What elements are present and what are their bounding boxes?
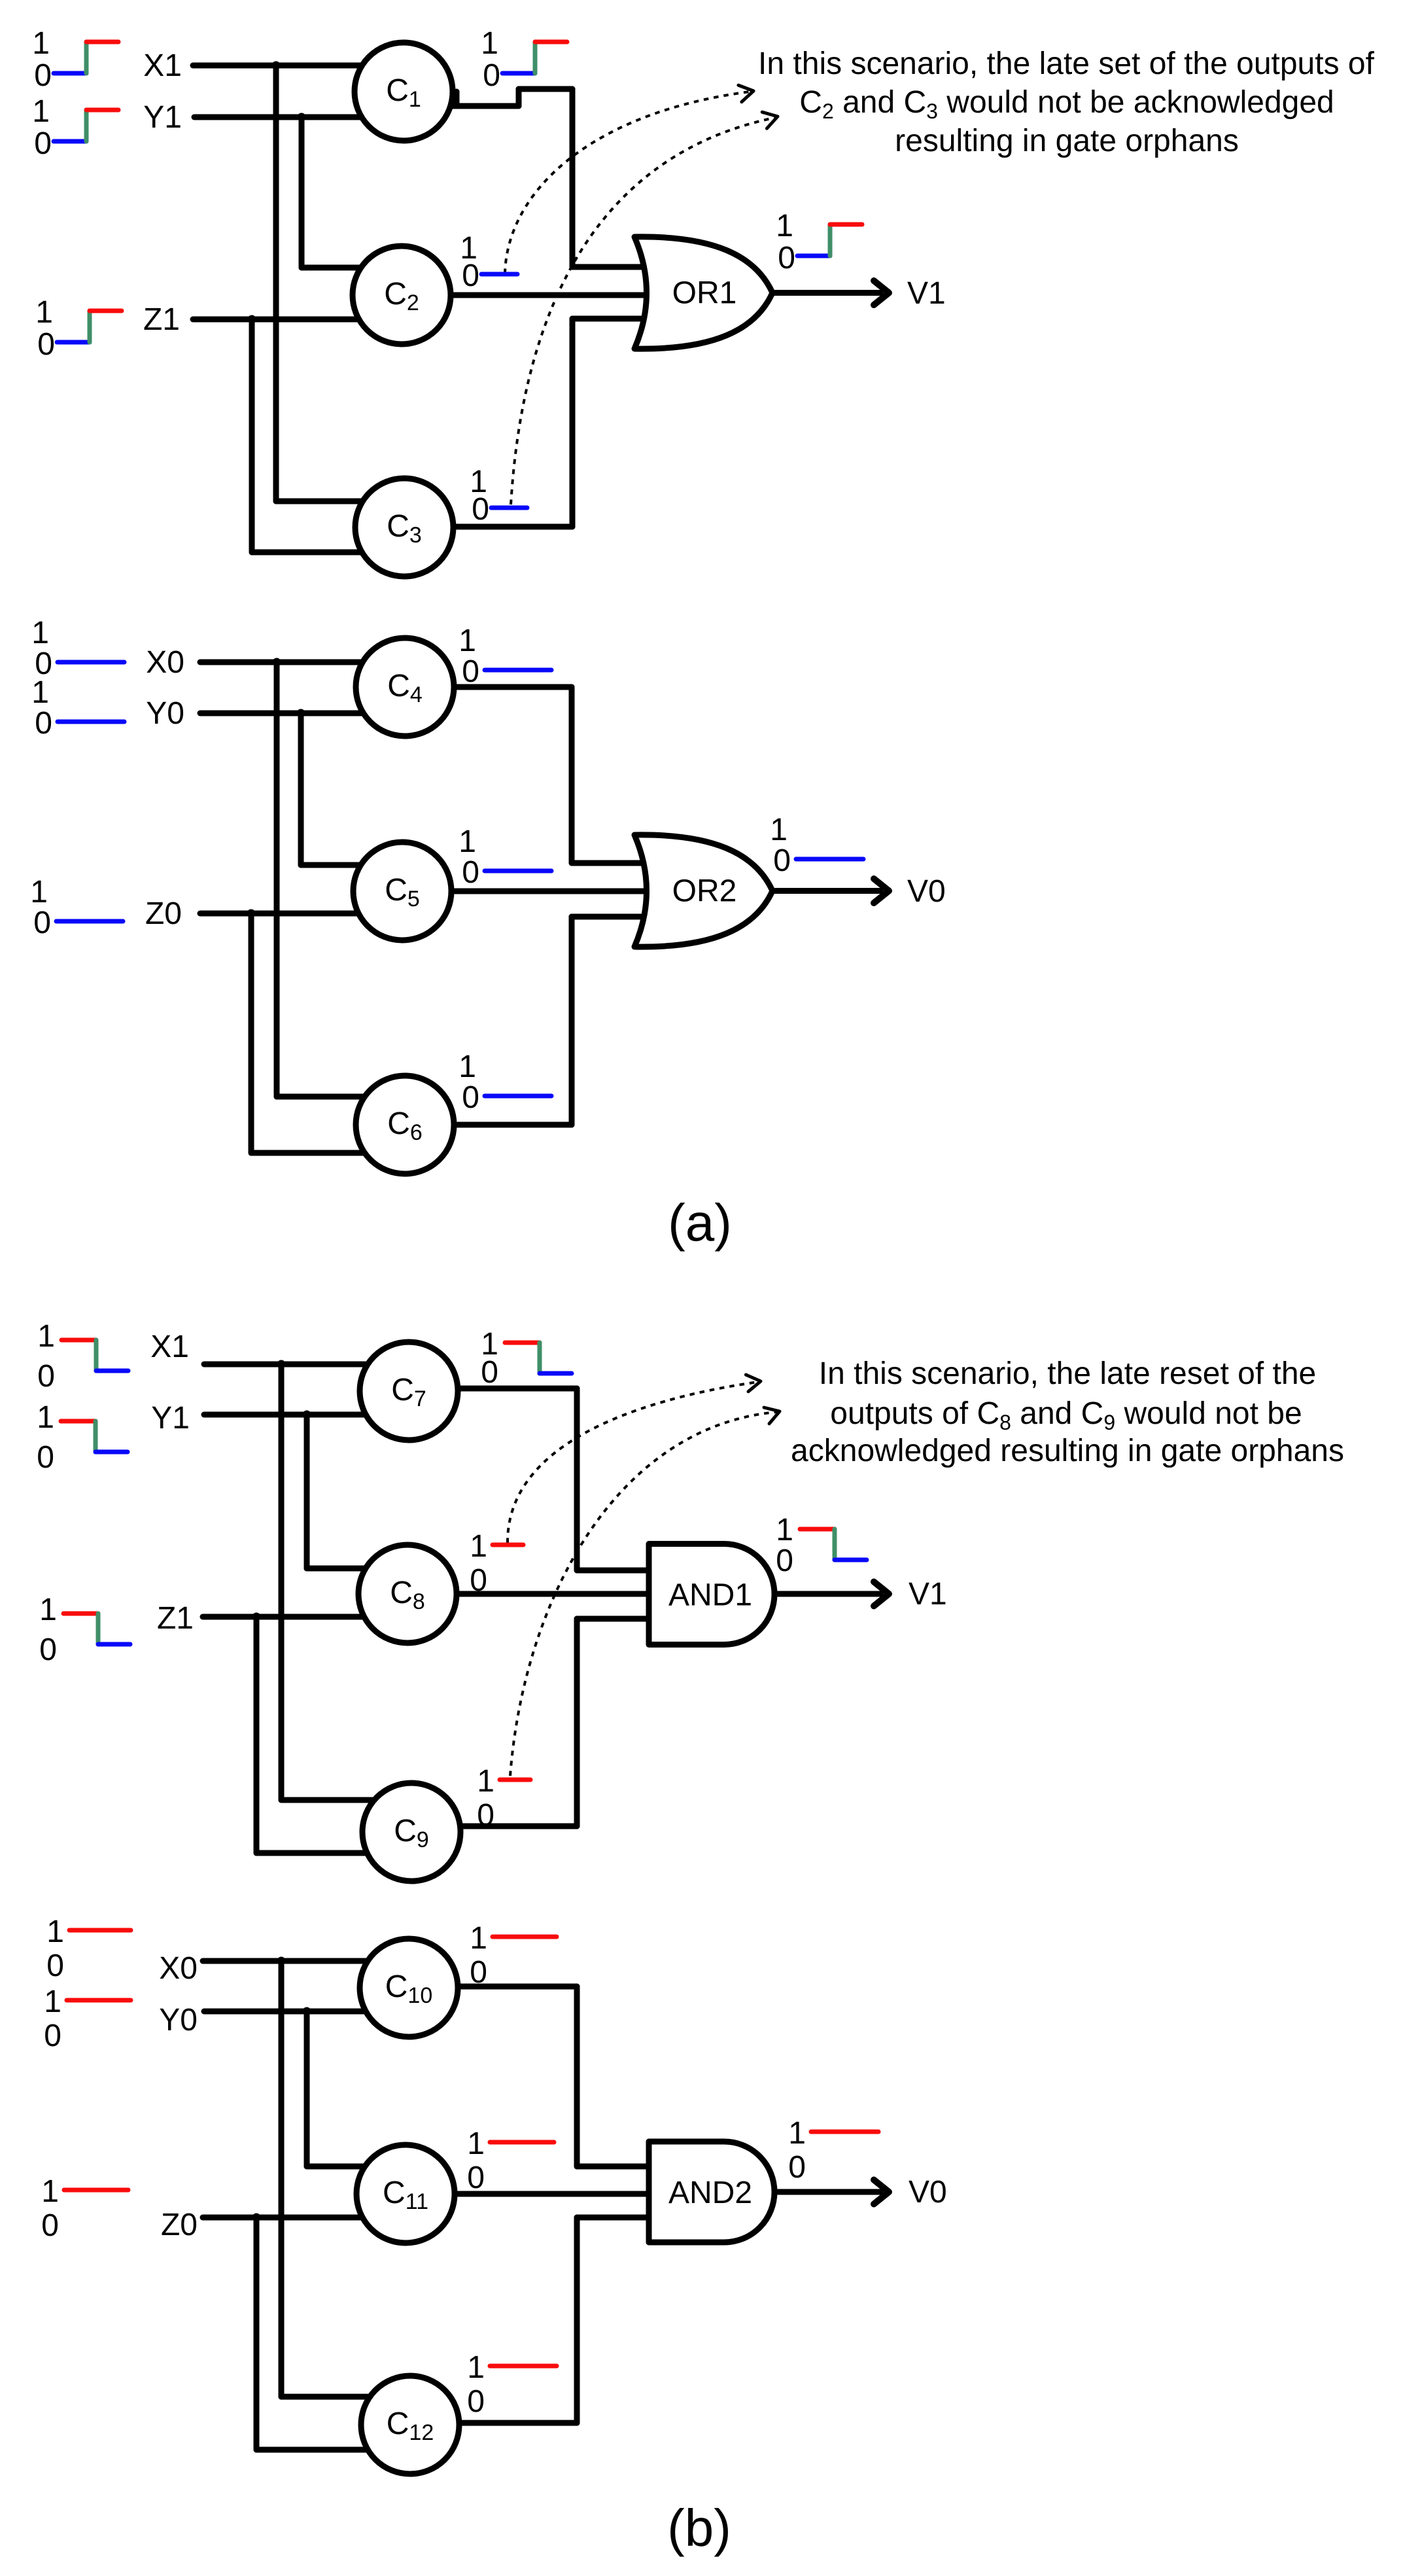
svg-text:1: 1 — [459, 624, 476, 658]
junction X1 (b) — [277, 1360, 286, 1369]
wire Z0 vertical to C6 — [251, 913, 405, 1153]
wire X0 vertical to C6 — [277, 662, 405, 1097]
svg-text:Y0: Y0 — [146, 696, 184, 731]
junction X0 (a) — [273, 658, 281, 667]
svg-text:1: 1 — [37, 1319, 55, 1354]
svg-text:V1: V1 — [907, 276, 946, 311]
svg-text:V1: V1 — [909, 1577, 947, 1612]
waveform V0 output low (a) — [770, 813, 863, 878]
wire C1 output to OR1 top input — [404, 89, 657, 267]
node V0 label (b) — [909, 2175, 947, 2210]
waveform C10 output high — [470, 1921, 557, 1990]
wire AND1 output arrow to V1 — [774, 1582, 889, 1606]
node X0 label (a) — [146, 645, 184, 680]
wire C2 output to OR1 middle input — [402, 292, 657, 298]
junction Y0 (b) — [303, 2007, 311, 2016]
wire C12 output to AND2 bottom input — [410, 2217, 657, 2423]
waveform C5 output low — [459, 824, 551, 890]
svg-text:acknowledged resulting in gate: acknowledged resulting in gate orphans — [791, 1434, 1344, 1468]
svg-text:Y0: Y0 — [159, 2003, 198, 2038]
wire Z1 to C8 — [203, 1614, 407, 1620]
wire C5 output to OR2 middle input — [402, 889, 657, 894]
svg-text:1: 1 — [477, 1764, 494, 1799]
svg-text:0: 0 — [33, 906, 51, 940]
svg-text:1: 1 — [32, 94, 50, 129]
waveform V0 output high (b) — [788, 2116, 878, 2185]
waveform X1 falling input (b) — [37, 1319, 128, 1394]
note text gate orphans (b) — [791, 1356, 1344, 1468]
waveform C3 output low — [470, 465, 527, 527]
svg-text:1: 1 — [32, 26, 50, 61]
svg-text:0: 0 — [773, 843, 791, 878]
C-element C11 — [356, 2145, 455, 2243]
svg-text:OR2: OR2 — [672, 874, 737, 909]
node X1 label (a) — [143, 48, 182, 83]
OR gate OR1 — [634, 237, 772, 349]
waveform V1 output rising (a) — [776, 209, 862, 275]
svg-text:1: 1 — [39, 1593, 57, 1627]
svg-text:outputs of C8 and C9 would not: outputs of C8 and C9 would not be — [830, 1396, 1302, 1434]
svg-text:1: 1 — [459, 824, 476, 859]
C-element C10 — [360, 1939, 458, 2037]
dashed arrow from C2 output waveform to note (a) — [505, 82, 755, 273]
svg-text:1: 1 — [37, 1400, 54, 1435]
node Y1 label (b) — [151, 1401, 190, 1436]
wire Y0 to C4 — [200, 711, 405, 716]
svg-text:0: 0 — [481, 1355, 498, 1390]
wire X0 vertical to C12 — [281, 1961, 410, 2397]
wire C10 output to AND2 top input — [409, 1986, 657, 2166]
wire X1 to C7 — [204, 1362, 409, 1367]
svg-text:1: 1 — [770, 813, 788, 847]
svg-text:1: 1 — [44, 1985, 61, 2019]
wire Y0 to C10 — [204, 2009, 409, 2015]
node V1 label (b) — [909, 1577, 947, 1612]
junction Y0 (a) — [297, 709, 305, 718]
wire Y1 vertical to C8 — [307, 1415, 407, 1568]
junction Z1 (b) — [252, 1613, 261, 1621]
node Z0 label (b) — [161, 2208, 198, 2242]
node Y1 label (a) — [143, 100, 182, 135]
svg-text:(a): (a) — [668, 1193, 732, 1252]
svg-text:1: 1 — [30, 875, 48, 909]
waveform Z1 rising input (a) — [35, 295, 122, 362]
C-element C12 — [361, 2376, 459, 2474]
C-element C2 — [353, 246, 451, 344]
C-element C5 — [353, 842, 451, 940]
wire AND2 output arrow to V0 — [774, 2180, 889, 2204]
svg-text:0: 0 — [462, 258, 479, 293]
svg-text:0: 0 — [37, 1440, 54, 1475]
waveform C4 output low — [459, 624, 551, 689]
waveform Y0 high input (b) — [44, 1985, 131, 2053]
waveform Z0 high input (b) — [41, 2174, 128, 2243]
C-element C6 — [356, 1076, 454, 1174]
wire C6 output to OR2 bottom input — [405, 917, 657, 1125]
svg-text:0: 0 — [37, 327, 55, 362]
waveform C6 output low — [459, 1050, 551, 1115]
waveform C8 output high — [470, 1529, 523, 1598]
wire Y0 vertical to C11 — [307, 2011, 406, 2166]
wire Y1 to C7 — [204, 1412, 409, 1418]
waveform X1 rising input (a) — [32, 26, 118, 93]
waveform C12 output high — [467, 2350, 557, 2419]
wire X1 vertical to C3 (a) — [276, 65, 404, 501]
svg-text:OR1: OR1 — [672, 276, 737, 311]
wire X0 to C10 — [203, 1958, 409, 1964]
wire C11 output to AND2 middle input — [406, 2191, 657, 2197]
svg-text:X1: X1 — [150, 1330, 189, 1364]
wire X1 vertical to C9 — [281, 1364, 411, 1800]
dashed arrow from C9 output waveform to note (b) — [510, 1403, 782, 1776]
waveform C11 output high — [467, 2126, 554, 2195]
wire X1 to C1 (a) — [193, 63, 404, 69]
svg-text:0: 0 — [467, 2161, 485, 2195]
svg-text:0: 0 — [470, 1955, 487, 1990]
wire X0 to C4 — [200, 660, 405, 665]
svg-text:0: 0 — [776, 1544, 793, 1578]
wire Z1 vertical to C3 (a) — [252, 319, 404, 552]
junction X1 (a) — [272, 62, 281, 70]
wire OR2 output arrow to V0 — [774, 879, 889, 903]
wire OR1 output arrow to V1 — [774, 281, 889, 305]
svg-text:0: 0 — [467, 2384, 485, 2419]
svg-text:1: 1 — [776, 1513, 793, 1547]
svg-text:Y1: Y1 — [143, 100, 182, 135]
svg-text:0: 0 — [483, 58, 500, 93]
svg-text:V0: V0 — [907, 874, 946, 909]
waveform C1 output rising — [481, 26, 567, 93]
wire Z1 vertical to C9 — [256, 1617, 411, 1853]
svg-text:0: 0 — [462, 654, 479, 689]
dashed arrow from C3 output waveform to note (a) — [511, 109, 780, 504]
junction Z0 (a) — [247, 909, 256, 918]
waveform C7 output falling — [481, 1327, 572, 1390]
waveform X0 low input (a) — [31, 616, 124, 681]
svg-text:0: 0 — [34, 58, 52, 93]
svg-text:1: 1 — [470, 1529, 487, 1564]
svg-text:Z1: Z1 — [157, 1601, 194, 1636]
waveform C9 output high — [477, 1764, 530, 1833]
junction Y1 (a) — [298, 113, 306, 122]
node Z0 label (a) — [145, 896, 182, 931]
svg-text:0: 0 — [462, 1080, 479, 1115]
junction X0 (b) — [277, 1957, 286, 1966]
waveform V1 output falling (b) — [776, 1513, 867, 1578]
wire Y1 vertical to C2 (a) — [302, 117, 402, 268]
wire C8 output to AND1 middle input — [407, 1591, 657, 1597]
svg-text:1: 1 — [46, 1914, 64, 1949]
svg-text:0: 0 — [477, 1798, 494, 1833]
svg-text:C2 and C3 would not be acknowl: C2 and C3 would not be acknowledged — [799, 85, 1334, 123]
subfigure label (a) — [668, 1193, 732, 1252]
wire C3 output to OR1 bottom input — [404, 319, 657, 527]
dashed arrow from C8 output waveform to note (b) — [508, 1373, 762, 1543]
svg-text:X1: X1 — [143, 48, 182, 83]
C-element C1 — [355, 43, 453, 141]
C-element C3 — [355, 478, 453, 576]
AND gate AND1 — [649, 1544, 774, 1645]
waveform Y0 low input (a) — [31, 675, 124, 741]
svg-text:0: 0 — [41, 2208, 59, 2243]
svg-text:0: 0 — [472, 492, 489, 527]
svg-text:1: 1 — [41, 2174, 59, 2209]
junction Z0 (b) — [252, 2214, 261, 2222]
svg-text:1: 1 — [788, 2116, 806, 2151]
C-element C7 — [360, 1342, 458, 1440]
svg-text:Z0: Z0 — [161, 2208, 198, 2242]
svg-text:0: 0 — [34, 126, 52, 161]
svg-text:0: 0 — [46, 1949, 64, 1983]
junction Z1 (a) — [248, 315, 256, 324]
node V0 label (a) — [907, 874, 946, 909]
node X1 label (b) — [150, 1330, 189, 1364]
svg-text:0: 0 — [39, 1632, 57, 1667]
node Y0 label (b) — [159, 2003, 198, 2038]
svg-text:0: 0 — [37, 1359, 55, 1394]
svg-text:Y1: Y1 — [151, 1401, 190, 1436]
svg-text:1: 1 — [31, 675, 49, 710]
svg-text:1: 1 — [467, 2350, 485, 2385]
svg-text:Z1: Z1 — [143, 302, 180, 337]
note text gate orphans (a) — [758, 46, 1375, 158]
subfigure label (b) — [667, 2499, 731, 2557]
C-element C9 — [362, 1783, 460, 1881]
svg-text:AND1: AND1 — [668, 1578, 752, 1613]
svg-text:0: 0 — [462, 855, 479, 890]
node V1 label (a) — [907, 276, 946, 311]
wire Z1 to C2 (a) — [193, 317, 402, 323]
svg-text:1: 1 — [470, 1921, 487, 1956]
C-element C4 — [356, 638, 454, 736]
svg-text:0: 0 — [788, 2150, 806, 2185]
OR gate OR2 — [634, 835, 772, 947]
svg-text:V0: V0 — [909, 2175, 947, 2210]
svg-text:0: 0 — [44, 2019, 61, 2053]
wire C7 output to AND1 top input — [409, 1388, 657, 1570]
wire C9 output to AND1 bottom input — [411, 1619, 657, 1826]
svg-text:(b): (b) — [667, 2499, 731, 2557]
svg-text:In this scenario, the late res: In this scenario, the late reset of the — [819, 1356, 1316, 1391]
svg-text:1: 1 — [481, 26, 498, 61]
svg-text:1: 1 — [459, 1050, 476, 1084]
junction Y1 (b) — [303, 1411, 311, 1419]
node X0 label (b) — [159, 1951, 198, 1986]
wire Z0 to C5 — [200, 911, 402, 917]
svg-text:X0: X0 — [146, 645, 184, 680]
node Z1 label (a) — [143, 302, 180, 337]
svg-text:0: 0 — [35, 706, 52, 741]
wire Z0 vertical to C12 — [256, 2217, 410, 2450]
node Z1 label (b) — [157, 1601, 194, 1636]
waveform Z0 low input (a) — [30, 875, 123, 940]
svg-text:1: 1 — [35, 295, 53, 330]
waveform Y1 falling input (b) — [37, 1400, 128, 1475]
svg-text:1: 1 — [467, 2126, 485, 2161]
waveform Z1 falling input (b) — [39, 1593, 130, 1667]
wire C4 output to OR2 top input — [405, 687, 657, 863]
svg-text:X0: X0 — [159, 1951, 198, 1986]
svg-text:resulting in gate orphans: resulting in gate orphans — [895, 124, 1239, 158]
svg-text:1: 1 — [31, 616, 49, 650]
waveform C2 output low — [460, 231, 517, 293]
node Y0 label (a) — [146, 696, 184, 731]
wire Y0 vertical to C5 — [301, 713, 402, 865]
AND gate AND2 — [649, 2142, 774, 2242]
C-element C8 — [358, 1545, 457, 1643]
svg-text:0: 0 — [778, 241, 795, 275]
waveform Y1 rising input (a) — [32, 94, 118, 161]
waveform X0 high input (b) — [46, 1914, 131, 1983]
svg-text:In this scenario, the late set: In this scenario, the late set of the ou… — [758, 46, 1375, 81]
wire Y1 to C1 (a) — [194, 115, 404, 120]
svg-text:1: 1 — [776, 209, 793, 243]
svg-text:0: 0 — [470, 1563, 487, 1598]
wire Z0 to C11 — [203, 2215, 406, 2221]
svg-text:Z0: Z0 — [145, 896, 182, 931]
svg-text:AND2: AND2 — [668, 2176, 752, 2210]
